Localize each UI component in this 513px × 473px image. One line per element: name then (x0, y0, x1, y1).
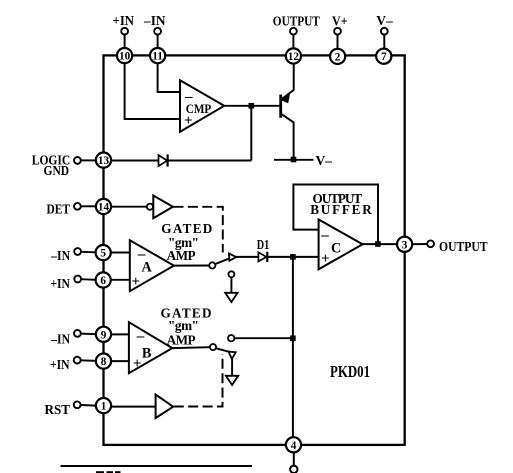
wire junction down to logic-gnd diode line (250, 106, 252, 161)
svg-text:GATED: GATED (161, 221, 213, 236)
terminal DET (74, 203, 81, 210)
terminal -IN A (74, 248, 81, 255)
wire pin 11 to CMP inverting input (158, 63, 180, 92)
DET buffer input bubble (147, 204, 153, 210)
svg-text:V–: V– (376, 13, 393, 28)
switch A pole contact (209, 262, 215, 268)
wire contact to ground A (230, 277, 232, 292)
svg-text:11: 11 (152, 51, 163, 63)
clipped text below rule (96, 471, 121, 473)
op-amp CMP (180, 80, 224, 132)
svg-text:6: 6 (100, 275, 106, 287)
svg-text:–IN: –IN (50, 248, 70, 263)
terminal RST (74, 401, 81, 408)
wire diode to junction (168, 160, 252, 162)
op-amp A (130, 240, 174, 291)
op-amp B (129, 322, 172, 373)
wire pin 8 to B non-inverting input (111, 360, 129, 362)
svg-text:+IN: +IN (50, 276, 70, 291)
wire pin 13 to diode (111, 160, 158, 162)
pin 2 (330, 49, 345, 64)
svg-text:RST: RST (45, 402, 71, 417)
pin 8 (96, 354, 111, 369)
svg-text:B: B (142, 346, 152, 362)
wire DET terminal to pin 14 (81, 205, 96, 207)
svg-text:A: A (141, 260, 152, 276)
wire switch A to diode D1 (236, 256, 258, 258)
wire CMP output to transistor base (224, 105, 280, 107)
transistor Q1 collector (281, 114, 294, 157)
svg-text:4: 4 (291, 440, 297, 452)
wire RST terminal to pin 1 (81, 404, 96, 407)
wire pin 6 to A non-inverting input (111, 279, 130, 281)
terminal -IN B (74, 330, 81, 337)
wire +IN terminal to pin 6 (81, 278, 96, 281)
terminal V+ (334, 28, 341, 35)
switch B upper contact (228, 335, 234, 341)
svg-text:1: 1 (101, 401, 107, 413)
dashed gate control from RST buffer to switch B (174, 354, 223, 407)
wire top terminal +IN to pin 10 (124, 35, 126, 49)
pin 5 (96, 245, 111, 260)
pin 4 (286, 437, 301, 452)
wire +IN terminal to pin 8 (81, 359, 96, 362)
svg-text:V+: V+ (332, 13, 348, 28)
wire main vertical node to pin 4 (292, 257, 294, 437)
svg-text:2: 2 (335, 51, 341, 63)
svg-text:9: 9 (101, 329, 107, 341)
pin 10 (117, 48, 132, 63)
pin 14 (96, 199, 111, 214)
wire V- stub (274, 159, 314, 161)
wire arm to ground B (231, 359, 233, 376)
wire top terminal V+ to pin 2 (337, 35, 339, 49)
pin 3 (397, 237, 412, 252)
svg-text:14: 14 (98, 202, 110, 214)
svg-text:V–: V– (316, 153, 333, 168)
svg-text:+IN: +IN (113, 13, 135, 28)
pin 12 (286, 48, 301, 63)
svg-text:AMP: AMP (167, 248, 197, 263)
node D1 / C input junction (290, 254, 296, 260)
svg-text:BUFFER: BUFFER (310, 202, 373, 217)
bottom separator rule (61, 465, 253, 467)
wire top terminal OUTPUT to pin 12 (292, 35, 294, 49)
svg-text:–IN: –IN (50, 332, 70, 347)
wire pin 10 to CMP non-inverting input (125, 63, 180, 119)
ground B (226, 376, 238, 385)
switch B arm (216, 348, 230, 352)
svg-text:7: 7 (381, 51, 387, 63)
dashed gate control from DET buffer to switch A (174, 207, 223, 253)
wire D1 to node (267, 256, 318, 258)
buffer RST (156, 395, 174, 419)
svg-text:3: 3 (402, 239, 408, 251)
node switch B line junction (290, 336, 296, 342)
terminal +IN A (74, 276, 81, 283)
op-amp C (319, 220, 363, 270)
wire B output to switch pole (172, 346, 210, 349)
svg-text:OUTPUT: OUTPUT (439, 239, 488, 254)
svg-text:OUTPUT: OUTPUT (273, 13, 320, 28)
pin 7 (376, 49, 391, 64)
terminal OUTPUT top (290, 28, 297, 35)
node C output junction (375, 241, 381, 247)
ground A (225, 293, 237, 302)
svg-text:AMP: AMP (167, 333, 197, 348)
wire emitter to pin 12 (293, 63, 295, 90)
pin 1 (96, 398, 111, 413)
wire pin 3 to OUTPUT terminal (412, 243, 427, 245)
wire pin 1 to RST buffer (111, 406, 156, 408)
svg-text:+IN: +IN (50, 357, 70, 372)
svg-text:–: – (184, 89, 193, 105)
svg-text:5: 5 (100, 248, 106, 260)
terminal +IN B (74, 357, 81, 364)
svg-text:10: 10 (119, 51, 131, 63)
svg-text:13: 13 (98, 155, 110, 167)
svg-text:–: – (320, 227, 329, 243)
wire pin 5 to A inverting input (111, 252, 130, 254)
switch B pole contact (210, 344, 216, 350)
switch A ground contact (228, 271, 234, 277)
pin 11 (150, 48, 165, 63)
svg-text:8: 8 (101, 356, 107, 368)
wire -IN terminal to pin 5 (81, 251, 96, 254)
pin 9 (96, 327, 111, 342)
wire -IN terminal to pin 9 (81, 333, 96, 336)
switch A arm arrowhead (229, 254, 236, 261)
svg-text:DET: DET (47, 202, 71, 217)
wire top terminal -IN to pin 11 (157, 35, 159, 49)
wire pin 4 to bottom terminal (293, 453, 295, 466)
svg-text:12: 12 (288, 51, 300, 63)
wire pin 14 to DET buffer (111, 206, 147, 208)
diode on LOGIC GND line (159, 155, 168, 166)
svg-text:+: + (133, 356, 142, 372)
svg-text:D1: D1 (257, 237, 270, 252)
transistor Q1 emitter (arrow into base) (281, 90, 294, 100)
wire A output to switch pole (174, 265, 209, 267)
svg-text:GND: GND (44, 163, 70, 178)
svg-text:C: C (331, 241, 341, 257)
node CMP output junction (249, 103, 255, 109)
wire pin 9 to B inverting input (111, 333, 129, 335)
diode D1 (258, 252, 266, 261)
terminal OUTPUT right (427, 240, 434, 247)
wire LOGIC GND terminal to pin 13 (81, 159, 96, 161)
svg-text:PKD01: PKD01 (330, 362, 370, 381)
terminal -IN (154, 28, 161, 35)
transistor Q1 base bar (279, 95, 282, 118)
buffer DET (153, 196, 173, 219)
wire C output to pin 3 (363, 243, 397, 245)
svg-text:+: + (184, 113, 193, 129)
pin 13 (96, 153, 111, 168)
node V- emitter junction (291, 157, 297, 163)
output buffer feedback wire box (293, 185, 378, 242)
svg-text:–IN: –IN (143, 13, 166, 28)
terminal +IN (121, 28, 128, 35)
terminal bottom below pin 4 (290, 466, 297, 473)
terminal V- (381, 28, 388, 35)
svg-text:+: + (132, 274, 141, 290)
svg-text:"gm": "gm" (168, 318, 200, 333)
terminal LOGIC GND (74, 157, 81, 164)
wire top terminal V- to pin 7 (383, 35, 385, 49)
pin 6 (96, 272, 111, 287)
svg-text:–: – (136, 328, 145, 344)
svg-text:+: + (321, 251, 330, 267)
outer device box (104, 55, 405, 445)
switch B arm arrowhead (228, 352, 235, 360)
wire switch B upper contact to node (234, 337, 293, 339)
switch A arm (215, 258, 230, 264)
